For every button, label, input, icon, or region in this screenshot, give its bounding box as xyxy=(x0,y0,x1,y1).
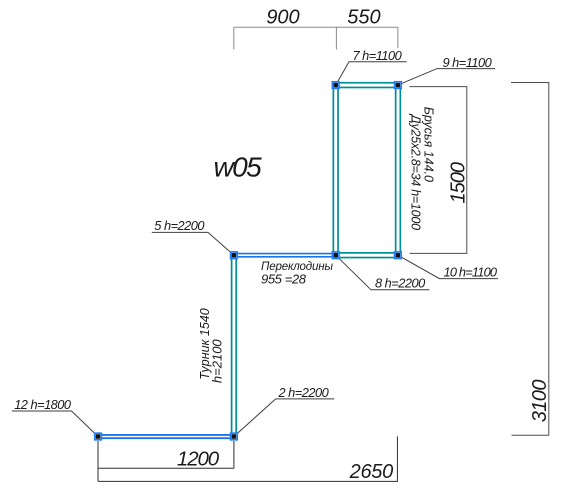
svg-text:7 h=1100: 7 h=1100 xyxy=(353,48,403,63)
node 9 xyxy=(395,82,402,89)
leader for label 12 xyxy=(12,411,98,437)
parallel bars frame (Брусья) outer rectangle xyxy=(333,83,400,258)
svg-text:10 h=1100: 10 h=1100 xyxy=(444,265,498,280)
bottom horizontal double line xyxy=(98,435,234,438)
leader for label 10 xyxy=(398,255,498,278)
node 7 xyxy=(332,82,339,89)
svg-text:9 h=1100: 9 h=1100 xyxy=(443,55,493,70)
leader for label 7 xyxy=(336,62,407,85)
leader for label 2 xyxy=(234,399,334,437)
leader for label 9 xyxy=(398,69,495,86)
svg-text:2650: 2650 xyxy=(349,461,393,483)
dimension 2650 bottom xyxy=(98,436,397,481)
svg-text:955 =28: 955 =28 xyxy=(261,272,307,287)
svg-text:w05: w05 xyxy=(214,151,263,182)
svg-text:12 h=1800: 12 h=1800 xyxy=(14,397,72,412)
dimension 1500 right of rectangle xyxy=(410,87,467,254)
svg-text:5 h=2200: 5 h=2200 xyxy=(154,218,205,233)
svg-text:1200: 1200 xyxy=(177,447,220,470)
node 10 xyxy=(395,252,402,259)
svg-text:h=2100: h=2100 xyxy=(209,339,224,384)
svg-text:Ду25х2.8=34 h=1000: Ду25х2.8=34 h=1000 xyxy=(409,113,423,230)
node 8 xyxy=(332,252,339,259)
node 12 xyxy=(95,433,102,440)
svg-text:900: 900 xyxy=(266,7,299,29)
svg-text:1500: 1500 xyxy=(447,162,469,203)
svg-text:8 h=2200: 8 h=2200 xyxy=(375,276,426,291)
dimension 1200 bottom xyxy=(98,441,234,481)
turnstile vertical double line (Турник) xyxy=(232,255,237,436)
leader for label 5 xyxy=(152,232,234,255)
dimension 3100 far right xyxy=(511,83,549,436)
leader for label 8 xyxy=(336,255,430,290)
parallel bars frame (Брусья) inner rectangle xyxy=(338,87,396,252)
node 2 xyxy=(231,433,238,440)
crossbars horizontal double line (Перекладины) xyxy=(234,254,336,257)
svg-text:2 h=2200: 2 h=2200 xyxy=(278,385,330,400)
svg-text:550: 550 xyxy=(347,7,380,29)
svg-text:3100: 3100 xyxy=(529,380,551,423)
dimension line 900/550 top xyxy=(234,27,398,49)
node 5 xyxy=(231,252,238,259)
